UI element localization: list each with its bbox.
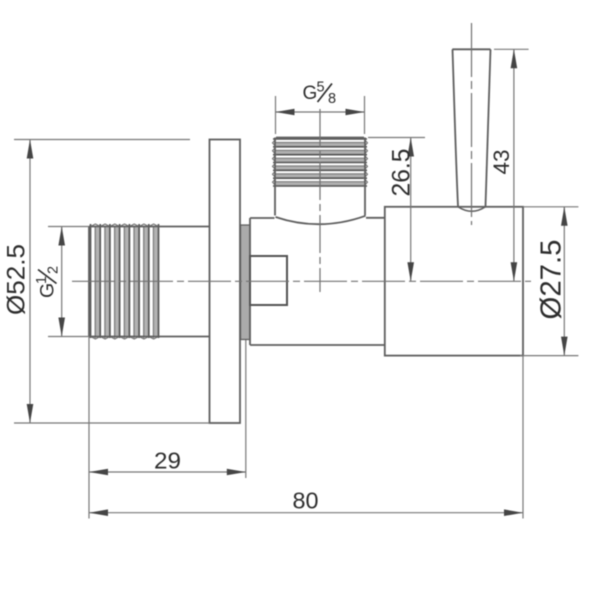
svg-text:29: 29	[154, 448, 181, 474]
svg-text:43: 43	[489, 150, 514, 175]
svg-text:G: G	[303, 83, 318, 104]
thread texture G5/8 outlet	[273, 139, 368, 186]
dim G1/2	[48, 227, 89, 337]
centerline outlet	[319, 109, 321, 292]
pipe G1/2 outline	[89, 227, 210, 337]
square nut	[250, 256, 287, 305]
svg-text:80: 80	[293, 488, 319, 514]
centerline handle	[471, 23, 473, 225]
svg-text:5: 5	[317, 80, 325, 96]
G1/2 label	[34, 266, 62, 298]
svg-text:26.5: 26.5	[388, 149, 416, 197]
dim G5/8	[276, 96, 365, 134]
svg-text:G: G	[37, 283, 59, 298]
outlet G5/8	[275, 138, 365, 216]
centerline horizontal	[72, 280, 531, 282]
dim 29	[89, 340, 246, 478]
dim O52.5	[14, 140, 210, 424]
dim 26.5	[368, 138, 425, 282]
body top arc	[276, 216, 366, 224]
G5/8 label	[303, 80, 337, 108]
svg-text:8: 8	[328, 91, 336, 107]
dim 80	[89, 337, 523, 519]
thread texture G1/2 pipe	[91, 224, 159, 339]
flange	[210, 140, 241, 424]
handle	[452, 49, 490, 211]
svg-text:Ø27.5: Ø27.5	[536, 240, 568, 320]
dim 43	[494, 49, 529, 281]
svg-text:Ø52.5: Ø52.5	[3, 244, 31, 315]
svg-text:2: 2	[46, 266, 62, 274]
dim O27.5	[520, 207, 578, 356]
cylinder	[385, 207, 523, 356]
washer	[241, 225, 251, 340]
body	[250, 216, 385, 345]
